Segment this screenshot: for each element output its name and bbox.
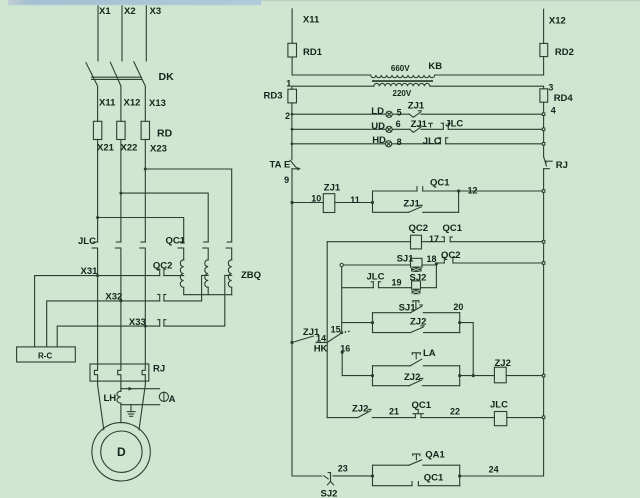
svg-text:KB: KB — [428, 61, 442, 72]
svg-text:X31: X31 — [81, 266, 99, 277]
svg-text:QC2: QC2 — [441, 250, 461, 261]
svg-text:8: 8 — [397, 137, 402, 147]
svg-text:9: 9 — [284, 175, 289, 185]
svg-text:X3: X3 — [150, 6, 162, 17]
svg-text:220V: 220V — [393, 89, 412, 98]
svg-text:X1: X1 — [99, 6, 111, 17]
svg-text:X32: X32 — [105, 292, 122, 303]
svg-text:LA: LA — [423, 348, 436, 359]
svg-text:ZJ1: ZJ1 — [403, 199, 420, 210]
svg-text:D: D — [117, 445, 126, 459]
svg-text:QC2: QC2 — [409, 223, 429, 234]
svg-text:ZJ1: ZJ1 — [408, 101, 425, 112]
svg-text:660V: 660V — [391, 64, 410, 73]
svg-text:21: 21 — [389, 407, 399, 417]
svg-text:4: 4 — [551, 106, 556, 116]
svg-text:SJ1: SJ1 — [397, 254, 415, 265]
svg-text:24: 24 — [489, 465, 499, 475]
svg-text:X12: X12 — [124, 98, 141, 109]
svg-text:RD4: RD4 — [554, 93, 574, 104]
svg-text:JLC: JLC — [490, 400, 508, 411]
svg-text:UD: UD — [371, 121, 385, 132]
svg-text:5: 5 — [397, 108, 402, 118]
svg-text:RD2: RD2 — [555, 47, 574, 58]
svg-text:X22: X22 — [121, 143, 138, 154]
svg-text:X33: X33 — [129, 317, 146, 328]
svg-text:2: 2 — [285, 111, 290, 121]
svg-text:QC1: QC1 — [443, 223, 463, 234]
svg-text:X13: X13 — [149, 98, 166, 109]
svg-text:DK: DK — [159, 71, 175, 83]
svg-text:LH: LH — [104, 393, 117, 404]
svg-text:X2: X2 — [124, 6, 136, 17]
svg-text:12: 12 — [468, 186, 478, 196]
svg-text:16: 16 — [340, 344, 350, 354]
svg-text:ZJ1: ZJ1 — [324, 183, 341, 194]
svg-text:ZJ2: ZJ2 — [404, 372, 420, 383]
svg-text:QC1: QC1 — [412, 400, 432, 411]
svg-text:QC1: QC1 — [424, 473, 444, 484]
svg-text:R-C: R-C — [38, 352, 52, 361]
svg-text:QC1: QC1 — [166, 236, 186, 247]
svg-text:18: 18 — [427, 254, 437, 264]
svg-text:X23: X23 — [150, 144, 167, 155]
svg-text:E: E — [284, 160, 290, 171]
svg-text:17: 17 — [429, 234, 439, 244]
svg-text:RJ: RJ — [153, 364, 165, 375]
svg-text:JLC: JLC — [78, 236, 96, 247]
svg-text:RJ: RJ — [556, 160, 568, 171]
svg-text:X12: X12 — [549, 16, 566, 27]
svg-text:ZJ2: ZJ2 — [495, 358, 511, 369]
svg-text:QA1: QA1 — [425, 450, 445, 461]
svg-text:X21: X21 — [97, 143, 115, 154]
svg-text:ZJ1: ZJ1 — [411, 119, 428, 130]
svg-text:X11: X11 — [303, 15, 320, 26]
svg-text:JLC: JLC — [423, 136, 441, 147]
svg-text:6: 6 — [396, 119, 401, 129]
svg-text:LD: LD — [371, 106, 384, 117]
svg-text:RD1: RD1 — [303, 47, 323, 58]
svg-text:HD: HD — [372, 135, 386, 146]
svg-text:QC1: QC1 — [430, 178, 450, 189]
svg-text:RD: RD — [157, 128, 173, 140]
svg-text:SJ1: SJ1 — [399, 303, 417, 314]
svg-text:20: 20 — [453, 302, 463, 312]
svg-text:JLC: JLC — [445, 119, 463, 130]
svg-text:ZJ2: ZJ2 — [352, 404, 368, 415]
svg-text:10: 10 — [311, 194, 321, 204]
svg-text:ZJ2: ZJ2 — [410, 317, 426, 328]
svg-text:X11: X11 — [99, 98, 116, 109]
svg-text:23: 23 — [338, 464, 348, 474]
svg-text:11: 11 — [350, 195, 360, 205]
svg-text:TA: TA — [270, 160, 282, 171]
svg-text:SJ2: SJ2 — [321, 489, 338, 498]
svg-text:SJ2: SJ2 — [410, 273, 427, 284]
svg-text:3: 3 — [548, 83, 553, 93]
svg-text:ZBQ: ZBQ — [241, 270, 261, 281]
svg-text:22: 22 — [450, 407, 460, 417]
svg-text:14: 14 — [316, 333, 326, 343]
svg-text:RD3: RD3 — [264, 91, 283, 102]
svg-text:15: 15 — [331, 325, 341, 335]
svg-text:1: 1 — [286, 78, 291, 88]
svg-text:A: A — [169, 394, 176, 405]
svg-text:JLC: JLC — [367, 272, 385, 283]
svg-text:QC2: QC2 — [153, 261, 173, 272]
svg-text:HK: HK — [314, 344, 328, 355]
svg-text:19: 19 — [392, 278, 402, 288]
